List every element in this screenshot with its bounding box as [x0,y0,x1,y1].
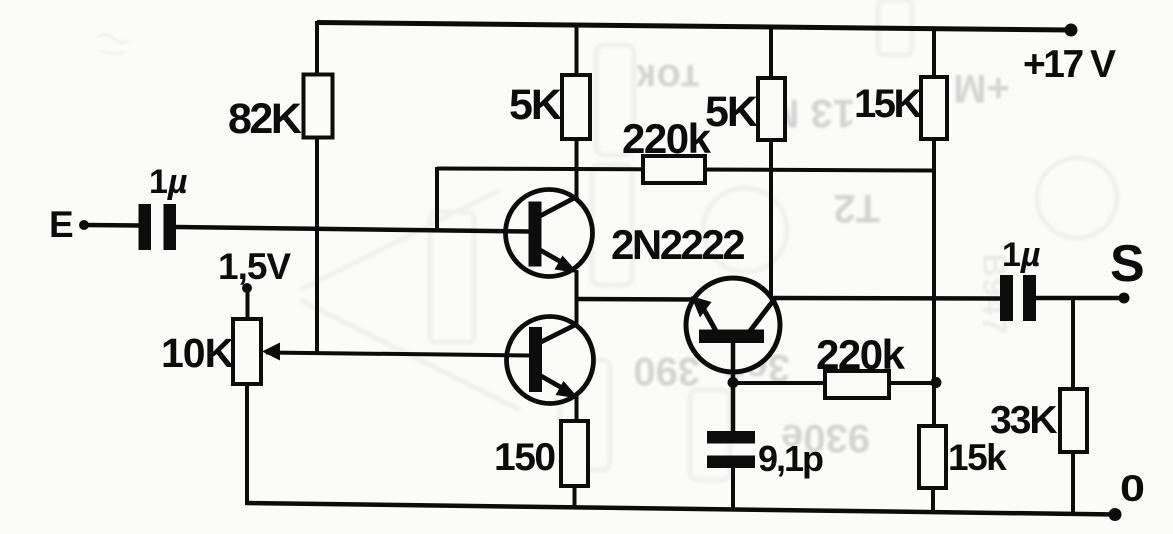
svg-text:390: 390 [633,349,700,393]
svg-text:5K: 5K [509,81,562,129]
svg-text:15k: 15k [948,437,1007,478]
svg-text:1µ: 1µ [1002,236,1041,274]
svg-text:9,1p: 9,1p [758,438,823,479]
svg-text:2N2222: 2N2222 [611,221,744,268]
svg-text:1,5V: 1,5V [218,246,291,287]
svg-text:+17 V: +17 V [1023,43,1116,86]
svg-text:5K: 5K [705,88,758,136]
svg-text:S: S [1110,235,1145,293]
svg-text:220k: 220k [622,115,712,162]
svg-text:220k: 220k [816,331,906,378]
svg-text:10K: 10K [161,330,235,376]
svg-text:T2: T2 [833,186,880,230]
svg-text:150: 150 [494,436,555,479]
svg-text:1µ: 1µ [149,163,188,201]
svg-text:0: 0 [1120,468,1145,509]
svg-text:+M: +M [953,66,1010,110]
svg-text:ток: ток [636,56,700,100]
svg-text:82K: 82K [228,95,302,143]
svg-text:15K: 15K [854,82,922,126]
svg-text:33K: 33K [990,399,1057,442]
svg-text:E: E [49,204,74,245]
